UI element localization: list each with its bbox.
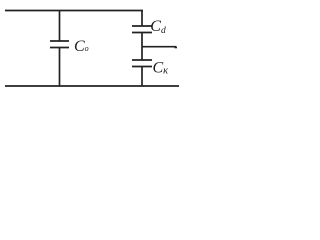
svg-text:Cк: Cк bbox=[153, 60, 169, 77]
svg-text:Cd: Cd bbox=[150, 18, 166, 36]
svg-text:Co: Co bbox=[74, 38, 89, 55]
